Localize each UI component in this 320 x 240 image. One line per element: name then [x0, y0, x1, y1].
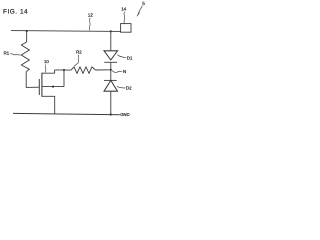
node N junction dot [110, 69, 112, 71]
wire: gate lead [26, 86, 39, 88]
ground rail [13, 113, 120, 114]
svg-text:10: 10 [44, 59, 49, 64]
drain stub [42, 70, 55, 73]
transistor 10 (MOSFET) [39, 70, 64, 114]
node: drain/body junction dot [63, 69, 65, 71]
source stub [42, 96, 55, 114]
node: junction R1 / line 12 [26, 30, 28, 32]
label 14 [121, 6, 126, 23]
svg-text:D2: D2 [126, 85, 132, 90]
wire: line 12 down to D1 [110, 31, 112, 51]
svg-text:12: 12 [88, 12, 93, 17]
terminal box 14 [121, 24, 131, 33]
wire: R2 to node N [95, 69, 110, 71]
svg-text:R2: R2 [76, 50, 82, 55]
node: body-source dot [52, 86, 54, 88]
wire: D2 anode to ground rail [110, 91, 112, 114]
label R1 [4, 51, 21, 56]
resistor R2 [71, 67, 95, 73]
label N [112, 69, 126, 74]
node: junction D2 / ground rail [110, 113, 112, 115]
resistor R1 [21, 31, 29, 88]
node: junction line 12 / D1 [110, 30, 112, 32]
gate plate [38, 79, 40, 95]
wire: drain to R2 node [55, 69, 71, 71]
svg-text:N: N [123, 69, 126, 74]
wire: D1 cathode to D2 cathode [110, 62, 112, 80]
label 5 with leader arrow [137, 1, 145, 16]
channel [41, 73, 43, 97]
label R2 [74, 50, 82, 67]
svg-text:GND: GND [120, 112, 129, 117]
svg-text:FIG. 14: FIG. 14 [3, 9, 28, 16]
label 10 [44, 59, 49, 72]
label D2 [117, 85, 132, 90]
wire: body tie vertical [63, 70, 65, 87]
svg-text:D1: D1 [127, 55, 133, 60]
diode D1 (anode up, cathode down) [104, 51, 118, 63]
body stub [42, 86, 64, 88]
wire: top supply line 12 [11, 30, 121, 33]
svg-text:5: 5 [142, 1, 145, 6]
label 12 [88, 12, 93, 30]
diode D2 (anode down, cathode up) [104, 80, 118, 91]
label D1 [117, 55, 133, 61]
svg-text:14: 14 [121, 6, 126, 11]
svg-text:R1: R1 [4, 51, 10, 56]
